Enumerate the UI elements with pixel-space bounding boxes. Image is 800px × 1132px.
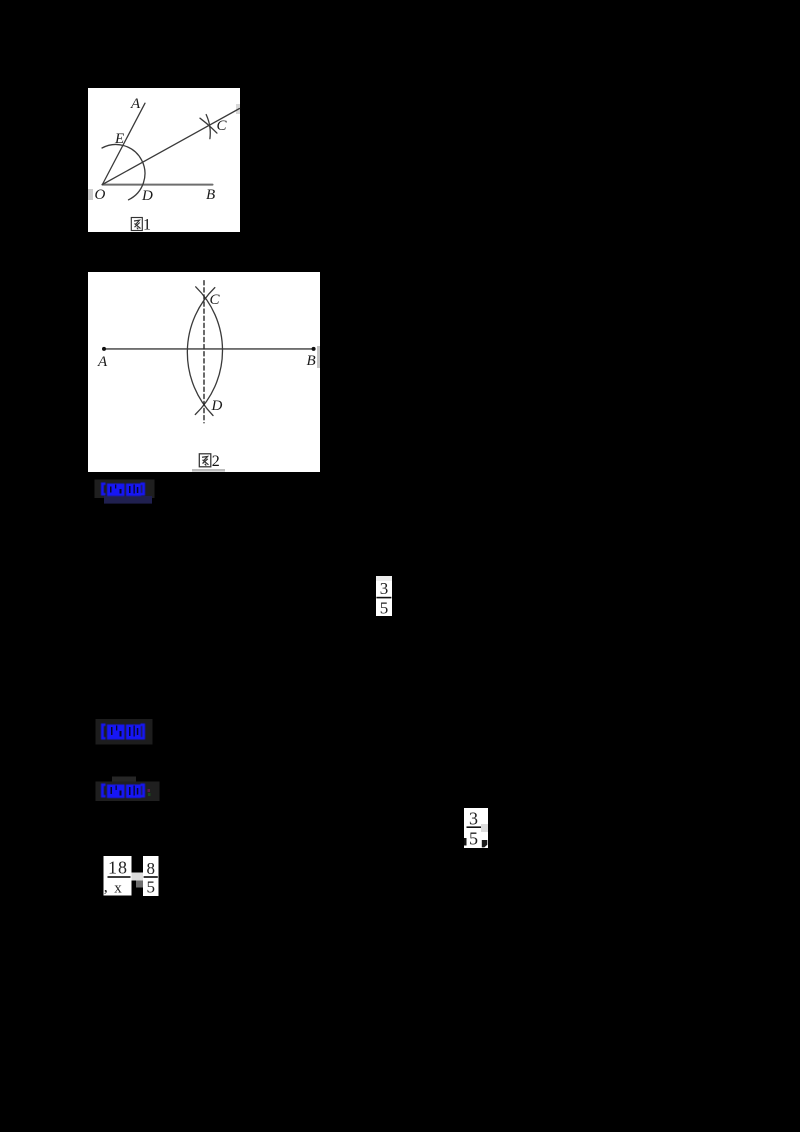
fig2 arc centered near A (right-bulging) bbox=[195, 287, 222, 415]
figure 1 edge artifact right bbox=[236, 104, 240, 114]
figure 1 white panel bbox=[88, 88, 240, 232]
svg-text:D: D bbox=[211, 398, 223, 414]
fig1 cross-arc at C (steep) bbox=[206, 115, 210, 139]
svg-text:B: B bbox=[206, 187, 215, 203]
fig2 endpoint dot A bbox=[102, 347, 106, 351]
fig2 segment AB bbox=[104, 348, 314, 350]
blue tag 3 speckle green bbox=[148, 793, 151, 796]
svg-text:O: O bbox=[95, 187, 106, 203]
svg-text:3: 3 bbox=[469, 809, 478, 829]
fig2 caption smudge bbox=[192, 469, 225, 472]
blue tag 1 text blob bbox=[101, 483, 145, 497]
fig2 dashed line CD bbox=[203, 281, 205, 423]
svg-text:x: x bbox=[114, 881, 122, 897]
equation 8/5 right fraction bbox=[143, 856, 159, 897]
svg-text:C: C bbox=[210, 292, 221, 308]
svg-text:2: 2 bbox=[212, 453, 220, 470]
blue tag 2 text blob bbox=[101, 724, 145, 740]
blue tag 3 top tab bbox=[112, 777, 136, 784]
svg-text:,: , bbox=[104, 879, 108, 896]
blue tag 3 halo bbox=[96, 782, 160, 802]
fig1 ray OB (horizontal) bbox=[102, 184, 212, 186]
fig2 caption glyph 图 bbox=[199, 454, 211, 467]
svg-text:5: 5 bbox=[469, 829, 478, 849]
blue tag 3 text blob bbox=[101, 784, 145, 799]
fig1 ray OC bbox=[102, 109, 239, 185]
blue tag 2 halo bbox=[96, 719, 153, 745]
svg-text:E: E bbox=[114, 131, 124, 147]
fig1 cross-slash at C bbox=[200, 118, 217, 133]
svg-text:C: C bbox=[217, 118, 228, 134]
svg-text:B: B bbox=[307, 353, 316, 369]
blue tag 1 halo bbox=[95, 480, 155, 499]
fig1 ray OA bbox=[102, 103, 145, 184]
svg-text:18: 18 bbox=[108, 858, 128, 878]
figure 1 edge artifact left bbox=[88, 189, 93, 200]
svg-text:3: 3 bbox=[380, 579, 389, 598]
equation 18/x = 8/5 left fraction bbox=[104, 856, 132, 897]
svg-text:1: 1 bbox=[143, 217, 151, 234]
svg-text:8: 8 bbox=[147, 859, 156, 878]
svg-text:5: 5 bbox=[380, 599, 389, 618]
fig2 edge artifact right near B bbox=[317, 346, 320, 368]
figure 2 white panel bbox=[88, 272, 320, 472]
blue tag 3 speckle magenta bbox=[148, 789, 151, 792]
fig2 endpoint dot B bbox=[312, 347, 316, 351]
fig1 big arc through E and D bbox=[102, 144, 145, 199]
equation equals-sign artifact bbox=[132, 873, 144, 881]
svg-text:D: D bbox=[141, 188, 153, 204]
fig1 caption glyph 图 bbox=[131, 218, 142, 231]
inline fraction 3/5 (second) with comma bbox=[464, 808, 488, 849]
svg-text:A: A bbox=[97, 354, 108, 370]
inline fraction 3/5 (first) bbox=[376, 576, 392, 618]
svg-text:A: A bbox=[130, 96, 141, 112]
fig2 arc centered near B (left-bulging) bbox=[187, 288, 214, 416]
blue tag 1 underbar bbox=[104, 496, 152, 504]
svg-text:5: 5 bbox=[147, 878, 156, 897]
